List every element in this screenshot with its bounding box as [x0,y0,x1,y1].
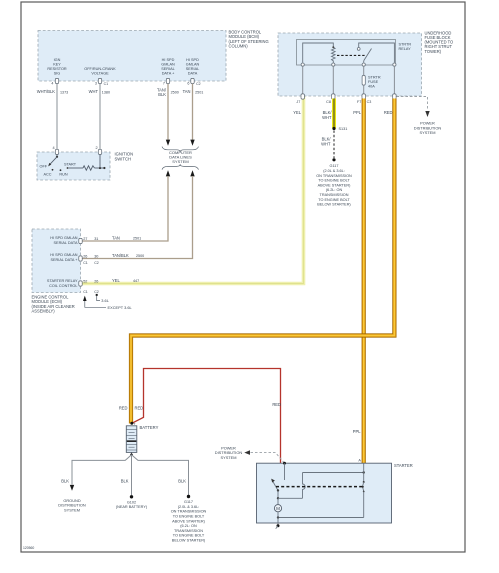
contact START [67,167,69,169]
svg-text:START: START [64,162,77,166]
wire YEL 447 (ECM starter relay coil control to fuse block) [81,95,304,284]
node COMPUTER DATA LINES SYSTEM [169,150,192,164]
node solenoid S feed junction [283,462,286,465]
svg-text:STRTR: STRTR [368,75,381,79]
node battery positive junction [130,422,133,425]
note arrow EXCEPT 3.6L [83,296,87,301]
svg-text:EXCEPT 3.6L: EXCEPT 3.6L [108,305,133,310]
brace top (into computer data lines system) [162,147,199,152]
svg-text:DATA +: DATA + [162,72,175,76]
svg-text:1380: 1380 [102,91,110,95]
fuse block pin C8 [332,94,335,99]
module ECM (engine control module) box [32,229,81,293]
wire relay terminal to STRTR fuse [363,67,365,76]
starter motor box [257,463,392,523]
wire STRTR fuse to pin F7 [363,85,365,94]
svg-text:7: 7 [163,81,165,85]
contact RUN [60,169,62,171]
node battery negative junction [130,454,133,457]
svg-text:(2.0L & 3.6L:: (2.0L & 3.6L: [323,169,345,173]
svg-text:BELOW STARTER): BELOW STARTER) [317,203,351,207]
ECM pin 26/30, connectors C1 C2 [79,256,82,261]
arrow down into computer data lines [190,140,194,146]
svg-text:TRANSMISSION: TRANSMISSION [320,193,349,197]
svg-text:2501: 2501 [133,237,141,241]
svg-text:RED: RED [272,402,281,407]
BCM pin 3, connector C1 [98,78,101,83]
svg-text:ACC: ACC [43,172,51,176]
svg-text:RELAY: RELAY [399,47,412,51]
svg-text:C1: C1 [83,290,88,294]
svg-text:30: 30 [94,254,98,258]
relay terminal 87 [362,63,365,66]
svg-text:BLK: BLK [61,479,69,484]
svg-text:C3: C3 [367,100,372,104]
svg-text:OFF: OFF [40,165,48,169]
wire to hold-in winding loop [278,497,303,499]
wire PPL (fuse F7 to starter terminal A) [362,99,366,464]
svg-text:M: M [276,506,280,511]
arrow to ground distribution system [70,485,74,491]
svg-text:OFF/RUN-CRANK: OFF/RUN-CRANK [84,67,116,71]
svg-text:120560: 120560 [23,546,34,550]
svg-text:TO ENGINE BOLT: TO ENGINE BOLT [318,179,350,183]
dashed link power distribution to starter feed [251,453,285,463]
ECM pin 52/26, connectors C1 C2 [79,281,82,286]
wire bottom return [278,517,364,519]
ECM pin label: HI SPD GMLAN SERIAL DATA + [50,253,78,262]
ignition switch pin 2 [98,149,101,154]
note tap 3.6L [96,294,98,296]
svg-text:SIG: SIG [54,72,61,76]
fuse F1 STRTR FUSE 40A [362,75,365,85]
svg-text:TOWER): TOWER) [425,49,442,54]
svg-text:TAN: TAN [183,89,191,94]
BCM pin function label: HI SPD GMLAN SERIAL DATA + [161,58,175,76]
svg-text:FUSE: FUSE [368,80,379,84]
svg-text:GMLAN: GMLAN [161,63,175,67]
svg-text:YEL: YEL [293,110,301,115]
switch S1 ignition switch box [37,152,110,180]
BCM pin function label: OFF/RUN-CRANK VOLTAGE [84,67,116,76]
ECM pin 27/31 [79,238,82,243]
svg-text:A: A [358,459,361,463]
svg-text:SYSTEM: SYSTEM [221,455,237,460]
svg-text:ABOVE STARTER): ABOVE STARTER) [172,519,206,523]
svg-text:HI SPD GMLAN: HI SPD GMLAN [50,253,77,257]
svg-text:GMLAN: GMLAN [186,63,200,67]
svg-text:HI SPD GMLAN: HI SPD GMLAN [50,236,77,240]
svg-text:3.6L: 3.6L [101,298,109,303]
svg-text:BLK: BLK [121,479,129,484]
svg-text:(2.0L & 3.6L:: (2.0L & 3.6L: [178,505,200,509]
svg-text:F7: F7 [357,100,361,104]
svg-text:TO ENGINE BOLT: TO ENGINE BOLT [173,534,205,538]
svg-text:TAN/BLK: TAN/BLK [112,253,129,258]
svg-text:SYSTEM: SYSTEM [420,130,436,135]
svg-text:HI SPD: HI SPD [162,58,175,62]
wire relay terminal to pin C8 [332,67,334,94]
svg-text:WHT: WHT [321,141,331,146]
wire relay terminal 30 to pin [393,67,395,94]
relay coil winding [303,43,334,63]
BCM name label [229,30,269,49]
ground G117 (near battery drawing) [187,495,190,498]
svg-text:2501: 2501 [195,91,203,95]
svg-text:TAN: TAN [112,235,120,240]
svg-text:RED: RED [135,406,144,411]
arrow up from data lines (right) [190,170,194,176]
svg-text:ON TRANSMISSION: ON TRANSMISSION [316,174,352,178]
brace bottom (out of computer data lines system) [162,164,199,169]
contact ACC [52,169,54,171]
svg-text:BATTERY: BATTERY [140,425,159,430]
svg-text:BLK: BLK [158,92,166,97]
arrow up from data lines (left) [166,170,170,176]
relay switch [363,61,365,63]
svg-text:C2: C2 [196,82,201,86]
BCM pin function label: HI SPD GMLAN SERIAL DATA [186,58,200,76]
solenoid plunger dashed link [276,486,363,488]
svg-text:2500: 2500 [171,91,179,95]
ground G102 [130,495,133,498]
svg-text:4: 4 [51,81,53,85]
svg-text:RED: RED [119,406,128,411]
svg-text:VOLTAGE: VOLTAGE [91,72,109,76]
svg-text:COIL CONTROL: COIL CONTROL [49,284,77,288]
svg-text:G117: G117 [329,164,338,168]
svg-text:26: 26 [94,279,98,283]
ECM pin label: STARTER RELAY COIL CONTROL [47,279,78,288]
fuse block pin J7 [301,94,304,99]
svg-text:3: 3 [95,81,97,85]
ground G117 (right) [332,158,335,161]
splice S131 [332,127,335,130]
ignition switch pin 4 [55,149,58,154]
wire RED (fuse block feed to battery positive) [131,99,394,424]
svg-text:WHT: WHT [89,89,99,94]
ground at starter case [277,518,279,526]
svg-text:DATA: DATA [188,72,198,76]
wire TAN 2501 (BCM pin 6 to data lines) [192,84,194,140]
svg-text:4: 4 [52,146,54,150]
svg-text:PPL: PPL [353,429,361,434]
arrow down into computer data lines [166,140,170,146]
svg-text:G117: G117 [184,500,193,504]
svg-text:SERIAL DATA: SERIAL DATA [54,241,78,245]
module BCM (body control module) box [38,30,269,86]
battery negative lead [131,452,133,454]
svg-text:ABOVE STARTER): ABOVE STARTER) [318,183,352,187]
svg-text:(6.2L: ON: (6.2L: ON [180,524,197,528]
wire pivot to motor node [277,491,279,499]
svg-text:STARTER: STARTER [394,463,413,468]
fuse block pin (RED feed) [393,94,396,99]
svg-text:TO ENGINE BOLT: TO ENGINE BOLT [173,515,205,519]
relay terminal 30 [393,63,396,66]
resistor inside ignition switch [68,167,83,169]
starter solenoid contact arm (left) [273,481,278,490]
svg-text:26: 26 [83,254,87,258]
node POWER DISTRIBUTION SYSTEM (left) [215,445,243,460]
wire relay terminal to pin J7 [302,67,304,94]
svg-text:52: 52 [83,279,87,283]
BCM pin 4 [55,78,58,83]
ECM name label [32,295,75,314]
underhood fuse block box [278,33,422,96]
svg-text:STRTR: STRTR [399,42,412,46]
wire from resistor to pin 2 [99,155,101,169]
svg-text:ASSEMBLY): ASSEMBLY) [32,308,56,313]
svg-text:+: + [133,422,136,427]
svg-text:SERIAL DATA +: SERIAL DATA + [50,258,78,262]
svg-text:SERIAL: SERIAL [186,67,200,71]
svg-text:G102: G102 [127,500,136,504]
motor M1 [277,498,279,504]
fuse block pin F7 C3 [362,94,365,99]
svg-text:C2: C2 [94,261,99,265]
svg-text:ON TRANSMISSION: ON TRANSMISSION [171,510,207,514]
svg-text:31: 31 [94,237,98,241]
svg-text:447: 447 [133,279,139,283]
BCM pin 6, connector C2 [191,78,194,83]
svg-text:TO ENGINE BOLT: TO ENGINE BOLT [318,198,350,202]
svg-text:RUN: RUN [59,172,67,176]
relay K1 STRTR RELAY box [297,40,396,66]
svg-text:SYSTEM: SYSTEM [64,508,80,513]
svg-text:RED: RED [384,110,393,115]
svg-text:SYSTEM: SYSTEM [172,159,188,164]
svg-text:C8: C8 [326,100,331,104]
svg-text:KEY: KEY [53,63,61,67]
relay terminal 85 [332,63,335,66]
svg-text:6: 6 [187,81,189,85]
battery BT1 [126,426,137,453]
svg-text:COLUMN): COLUMN) [229,43,249,48]
svg-text:IGN: IGN [54,58,61,62]
svg-text:YEL: YEL [112,278,120,283]
relay terminal 86 [301,63,304,66]
fuse block name label [425,30,454,53]
svg-text:C1: C1 [83,261,88,265]
svg-text:J7: J7 [296,100,300,104]
svg-text:27: 27 [83,237,87,241]
wire TAN to ECM pin 27 [81,176,169,241]
wire RED (battery to starter solenoid) [132,369,281,464]
svg-text:C1: C1 [104,82,109,86]
svg-text:(NEAR BATTERY): (NEAR BATTERY) [116,505,148,509]
svg-text:TRANSMISSION: TRANSMISSION [174,529,203,533]
arrow to power distribution system [425,111,429,117]
wire TAN/BLK to ECM pin 26 [81,176,193,259]
wire WHT 1380 (BCM pin 3 to ignition switch) [99,84,101,150]
wire WHT/BLK 1373 (BCM pin 4 to ignition switch) [56,84,58,150]
wire TAN/BLK 2500 (BCM pin 7 to data lines) [167,84,169,140]
svg-text:BLK: BLK [178,479,186,484]
ECM pin label: HI SPD GMLAN SERIAL DATA [50,236,78,245]
svg-text:S131: S131 [339,127,348,131]
svg-text:1373: 1373 [60,91,68,95]
svg-text:STARTER RELAY: STARTER RELAY [47,279,78,283]
svg-text:HI SPD: HI SPD [186,58,199,62]
svg-text:PPL: PPL [353,110,361,115]
svg-text:C2: C2 [94,290,99,294]
relay armature dashed link [337,54,366,56]
wire terminal A into box [363,463,365,472]
svg-text:WHT: WHT [322,115,332,120]
wire BLK/WHT (highlighted) from fuse block to splice S131 [332,99,336,129]
svg-text:SERIAL: SERIAL [161,67,175,71]
arrow to power distribution (left) [244,450,250,455]
BCM pin function label: IGN KEY RESISTOR SIG [47,58,67,76]
BCM pin 7 [166,78,169,83]
starter solenoid contact (right) [363,473,365,482]
svg-text:40A: 40A [368,85,375,89]
svg-text:RESISTOR: RESISTOR [47,67,67,71]
svg-text:BELOW STARTER): BELOW STARTER) [172,539,206,543]
dashed link to power distribution (top right) [397,97,428,111]
dashed wire to ground G117 [333,131,335,159]
svg-text:2: 2 [95,146,97,150]
svg-text:(6.2L: ON: (6.2L: ON [326,188,343,192]
svg-text:SWITCH: SWITCH [115,157,132,162]
svg-text:WHT/BLK: WHT/BLK [37,89,55,94]
wire ground bus [72,455,132,485]
ignition switch rotor arm (pointing to OFF) [56,155,58,157]
wire solenoid control inside starter [284,463,286,480]
svg-text:2500: 2500 [136,254,144,258]
